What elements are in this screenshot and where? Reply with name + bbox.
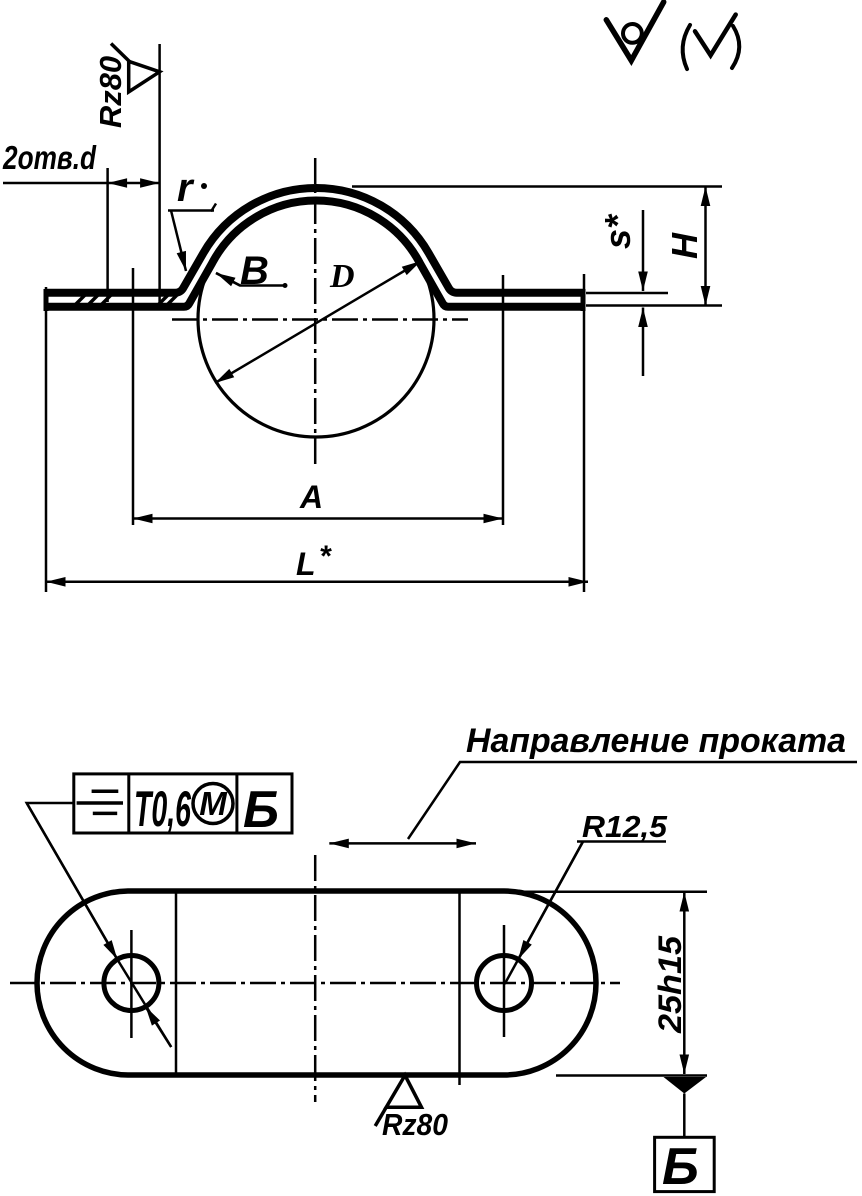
svg-text:Б: Б	[662, 1138, 699, 1196]
svg-text:Б: Б	[243, 781, 279, 839]
svg-text:М: М	[199, 785, 228, 822]
svg-text:B: B	[240, 249, 269, 293]
svg-text:Rz80: Rz80	[93, 56, 128, 128]
svg-text:2отв.d: 2отв.d	[2, 139, 96, 176]
svg-text:Rz80: Rz80	[382, 1107, 448, 1142]
svg-text:Т0,6: Т0,6	[134, 781, 192, 837]
svg-text:Направление проката: Направление проката	[466, 722, 846, 760]
svg-text:R12,5: R12,5	[582, 809, 668, 844]
svg-text:H: H	[664, 232, 705, 259]
svg-text:A: A	[299, 479, 323, 515]
svg-text:L: L	[296, 546, 316, 582]
svg-text:s*: s*	[597, 213, 638, 249]
svg-text:r: r	[177, 166, 195, 210]
svg-text:25h15: 25h15	[652, 935, 688, 1034]
svg-text:D: D	[329, 258, 355, 295]
svg-text:*: *	[319, 540, 332, 573]
